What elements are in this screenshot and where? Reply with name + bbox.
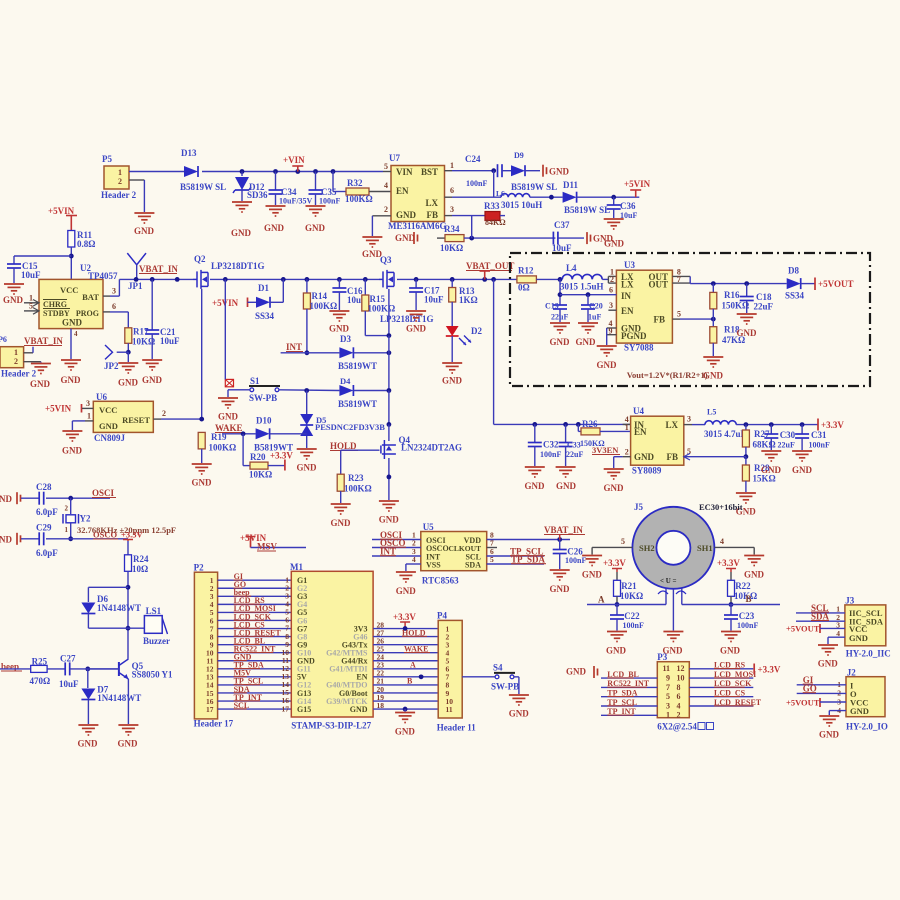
svg-text:LN2324DT2AG: LN2324DT2AG [401, 443, 462, 453]
svg-text:6: 6 [677, 692, 681, 701]
svg-text:100nF: 100nF [319, 197, 340, 206]
svg-text:22uF: 22uF [778, 441, 795, 450]
svg-text:GND: GND [329, 324, 350, 334]
svg-text:IN: IN [621, 291, 632, 301]
svg-text:D1: D1 [258, 283, 269, 293]
svg-text:D11: D11 [563, 180, 579, 190]
svg-text:B5819WT: B5819WT [338, 399, 377, 409]
svg-text:GND: GND [406, 324, 427, 334]
svg-text:GND: GND [849, 633, 868, 643]
svg-text:L4: L4 [566, 263, 577, 273]
svg-text:GND: GND [792, 465, 813, 475]
svg-text:4: 4 [677, 701, 681, 710]
svg-text:22uF: 22uF [551, 313, 568, 322]
svg-text:2: 2 [610, 275, 614, 284]
svg-text:6: 6 [609, 286, 613, 295]
svg-text:S1: S1 [250, 376, 260, 386]
svg-text:C20: C20 [589, 302, 603, 311]
svg-text:9: 9 [666, 674, 670, 683]
svg-text:C23: C23 [739, 611, 755, 621]
svg-text:LX: LX [425, 198, 438, 208]
svg-text:C30: C30 [780, 430, 796, 440]
svg-text:GND: GND [556, 481, 577, 491]
svg-text:R34: R34 [444, 224, 460, 234]
svg-text:100KΩ: 100KΩ [310, 301, 338, 311]
svg-text:6.0pF: 6.0pF [36, 507, 58, 517]
svg-text:R15: R15 [370, 294, 386, 304]
svg-text:GND: GND [597, 360, 618, 370]
svg-text:SS8050 Y1: SS8050 Y1 [132, 670, 173, 680]
svg-text:GND: GND [509, 709, 530, 719]
svg-text:GND: GND [0, 535, 13, 545]
svg-text:P3: P3 [657, 652, 667, 662]
svg-text:D2: D2 [471, 326, 482, 336]
svg-text:100KΩ: 100KΩ [344, 484, 372, 494]
svg-text:J5: J5 [634, 502, 644, 512]
svg-text:LS1: LS1 [146, 606, 162, 616]
svg-text:ME3116AM6G: ME3116AM6G [388, 221, 447, 231]
svg-text:VBAT_IN: VBAT_IN [544, 525, 583, 535]
svg-text:GND: GND [593, 234, 614, 244]
svg-text:beep: beep [1, 662, 19, 672]
svg-text:2: 2 [118, 177, 122, 186]
svg-text:GND: GND [297, 463, 318, 473]
svg-text:EC30+16bit: EC30+16bit [699, 502, 743, 512]
svg-text:< U =: < U = [660, 577, 677, 585]
svg-text:GND: GND [819, 730, 840, 740]
svg-text:100nF: 100nF [737, 621, 758, 630]
svg-text:U7: U7 [389, 153, 400, 163]
svg-text:R12: R12 [518, 266, 534, 276]
svg-text:3: 3 [687, 415, 691, 424]
svg-text:2: 2 [162, 409, 166, 418]
svg-text:GND: GND [331, 518, 352, 528]
svg-text:1: 1 [87, 412, 91, 421]
svg-text:4: 4 [836, 629, 840, 638]
svg-text:GND: GND [720, 646, 741, 656]
svg-text:10uF: 10uF [424, 295, 444, 305]
svg-text:VBAT_OUT: VBAT_OUT [466, 261, 514, 271]
svg-text:GND: GND [350, 705, 368, 714]
svg-text:D8: D8 [788, 266, 799, 276]
svg-text:GND: GND [264, 223, 285, 233]
svg-text:FB: FB [426, 210, 438, 220]
svg-text:SH1: SH1 [697, 543, 713, 553]
svg-text:1: 1 [118, 168, 122, 177]
svg-text:+VIN: +VIN [283, 155, 305, 165]
svg-text:18: 18 [377, 701, 385, 710]
svg-text:Header 2: Header 2 [101, 190, 137, 200]
svg-text:2: 2 [384, 205, 388, 214]
svg-text:VCC: VCC [99, 405, 117, 415]
svg-text:P2: P2 [194, 563, 204, 573]
svg-text:STAMP-S3-DIP-L27: STAMP-S3-DIP-L27 [291, 721, 371, 731]
svg-text:100nF: 100nF [623, 621, 644, 630]
svg-text:GND: GND [606, 646, 627, 656]
svg-text:+3.3V: +3.3V [121, 530, 143, 540]
svg-text:GND: GND [395, 727, 416, 737]
svg-text:U6: U6 [96, 392, 107, 402]
svg-text:D3: D3 [340, 334, 351, 344]
svg-text:GND: GND [62, 446, 83, 456]
svg-text:C33: C33 [567, 441, 581, 450]
svg-text:INT: INT [286, 342, 302, 352]
svg-text:LX: LX [665, 420, 678, 430]
svg-text:BST: BST [421, 167, 438, 177]
svg-text:3: 3 [86, 399, 90, 408]
svg-text:+3.3V: +3.3V [717, 558, 740, 568]
svg-text:PGND: PGND [621, 331, 647, 341]
svg-text:5: 5 [384, 162, 388, 171]
svg-text:OUT: OUT [648, 280, 668, 290]
svg-text:17: 17 [206, 705, 214, 714]
svg-text:17: 17 [282, 704, 290, 713]
svg-text:G15: G15 [297, 705, 311, 714]
svg-text:R16: R16 [724, 290, 740, 300]
svg-text:GND: GND [850, 706, 869, 716]
svg-text:5: 5 [677, 310, 681, 319]
svg-text:EN: EN [396, 186, 409, 196]
svg-text:BAT: BAT [82, 292, 99, 302]
svg-text:2: 2 [14, 357, 18, 366]
svg-text:GND: GND [3, 295, 24, 305]
svg-text:VBAT_IN: VBAT_IN [24, 336, 63, 346]
svg-text:100nF: 100nF [565, 556, 586, 565]
svg-text:100KΩ: 100KΩ [345, 194, 373, 204]
svg-text:U5: U5 [423, 522, 434, 532]
svg-text:B: B [407, 677, 413, 686]
svg-text:J2: J2 [847, 668, 857, 678]
svg-text:GND: GND [550, 584, 571, 594]
svg-text:R25: R25 [32, 657, 48, 667]
svg-text:SW-PB: SW-PB [249, 393, 277, 403]
svg-text:GND: GND [566, 667, 587, 677]
svg-text:C24: C24 [465, 154, 481, 164]
svg-text:3V3EN: 3V3EN [592, 445, 619, 455]
svg-text:J3: J3 [845, 596, 855, 606]
svg-text:OSCI: OSCI [92, 488, 115, 498]
svg-text:GND: GND [379, 515, 400, 525]
svg-text:GND: GND [525, 481, 546, 491]
svg-text:3: 3 [112, 287, 116, 296]
svg-text:10uF: 10uF [620, 211, 637, 220]
svg-text:OSCO: OSCO [93, 530, 117, 540]
svg-text:Header 11: Header 11 [437, 723, 477, 733]
svg-text:R19: R19 [211, 432, 227, 442]
svg-text:SY8089: SY8089 [632, 466, 662, 476]
svg-text:SS34: SS34 [255, 311, 275, 321]
svg-text:1: 1 [14, 348, 18, 357]
svg-text:C29: C29 [36, 523, 52, 533]
svg-text:22uF: 22uF [754, 302, 774, 312]
svg-text:10KΩ: 10KΩ [440, 243, 463, 253]
svg-text:D4: D4 [340, 376, 351, 386]
svg-text:4: 4 [720, 537, 724, 546]
svg-text:U3: U3 [624, 260, 635, 270]
svg-text:Q3: Q3 [380, 255, 392, 265]
svg-text:2: 2 [677, 711, 681, 720]
svg-text:R32: R32 [347, 178, 363, 188]
svg-text:LX: LX [621, 280, 634, 290]
svg-text:Header 17: Header 17 [194, 719, 234, 729]
svg-text:CHRG: CHRG [43, 300, 67, 309]
svg-text:GND: GND [396, 210, 417, 220]
svg-text:4: 4 [74, 330, 78, 338]
svg-text:4: 4 [412, 555, 416, 564]
svg-text:1KΩ: 1KΩ [459, 295, 478, 305]
svg-text:GND: GND [744, 570, 765, 580]
svg-text:5: 5 [29, 302, 33, 311]
svg-text:2: 2 [625, 448, 629, 457]
svg-text:0Ω: 0Ω [518, 283, 530, 293]
svg-text:VBAT_IN: VBAT_IN [139, 264, 178, 274]
svg-text:9: 9 [609, 327, 613, 336]
svg-text:1uF: 1uF [588, 313, 601, 322]
svg-text:R24: R24 [133, 554, 149, 564]
svg-text:B5819WT: B5819WT [338, 361, 377, 371]
svg-text:GND: GND [576, 337, 597, 347]
svg-text:470Ω: 470Ω [30, 676, 51, 686]
svg-text:10uF/35V: 10uF/35V [279, 197, 313, 206]
svg-text:M1: M1 [290, 562, 303, 572]
svg-text:6: 6 [112, 302, 116, 311]
svg-text:SS34: SS34 [785, 291, 805, 301]
svg-text:PESDNC2FD3V3B: PESDNC2FD3V3B [315, 422, 385, 432]
svg-text:C27: C27 [60, 654, 76, 664]
svg-text:84KΩ: 84KΩ [485, 218, 506, 227]
svg-text:S4: S4 [493, 663, 503, 673]
svg-text:HY-2.0_IO: HY-2.0_IO [846, 722, 888, 732]
svg-text:B5819W SL: B5819W SL [564, 205, 610, 215]
svg-text:2: 2 [65, 505, 69, 513]
svg-text:+5VOUT: +5VOUT [818, 279, 853, 289]
svg-text:100nF: 100nF [540, 450, 561, 459]
svg-text:10uF: 10uF [59, 679, 79, 689]
svg-text:C37: C37 [554, 220, 570, 230]
svg-text:R26: R26 [582, 419, 598, 429]
svg-text:GND: GND [134, 226, 155, 236]
svg-text:P6: P6 [0, 335, 7, 344]
svg-text:GND: GND [442, 376, 463, 386]
svg-text:LP3218DT1G: LP3218DT1G [380, 314, 434, 324]
svg-text:100KΩ: 100KΩ [368, 304, 396, 314]
svg-text:10uF: 10uF [552, 243, 572, 253]
svg-text:C31: C31 [811, 430, 827, 440]
svg-text:GND: GND [395, 233, 416, 243]
svg-text:+3.3V: +3.3V [270, 451, 293, 461]
svg-text:5: 5 [621, 537, 625, 546]
svg-text:GND: GND [761, 465, 782, 475]
svg-text:68KΩ: 68KΩ [753, 440, 776, 450]
svg-text:VCC: VCC [60, 285, 78, 295]
svg-text:C26: C26 [567, 547, 583, 557]
svg-text:P4: P4 [437, 611, 447, 621]
svg-text:JP1: JP1 [128, 281, 143, 291]
svg-text:10KΩ: 10KΩ [620, 591, 643, 601]
svg-text:1: 1 [625, 423, 629, 432]
svg-text:+3.3V: +3.3V [758, 665, 781, 675]
svg-text:LP3218DT1G: LP3218DT1G [211, 261, 265, 271]
svg-text:GND: GND [30, 379, 51, 389]
svg-text:B5819W SL: B5819W SL [511, 182, 557, 192]
svg-text:L5: L5 [707, 408, 716, 417]
svg-text:C36: C36 [620, 201, 636, 211]
svg-text:SDA: SDA [811, 611, 830, 621]
svg-text:B5819W SL: B5819W SL [180, 182, 226, 192]
svg-text:SY7088: SY7088 [624, 343, 654, 353]
svg-text:GND: GND [78, 739, 99, 749]
svg-text:D9: D9 [514, 151, 524, 160]
svg-text:VSS: VSS [426, 561, 441, 570]
svg-text:+5VIN: +5VIN [45, 404, 72, 414]
svg-text:GND: GND [604, 483, 625, 493]
svg-text:C32: C32 [543, 440, 559, 450]
svg-text:11: 11 [446, 705, 453, 714]
svg-text:R22: R22 [735, 581, 751, 591]
svg-text:GND: GND [61, 375, 82, 385]
svg-text:Buzzer: Buzzer [143, 636, 170, 646]
svg-text:A: A [598, 595, 605, 605]
svg-text:4: 4 [384, 181, 388, 190]
svg-text:+5VOUT: +5VOUT [786, 624, 820, 634]
svg-text:100KΩ: 100KΩ [209, 443, 237, 453]
svg-text:Header 2: Header 2 [1, 369, 37, 379]
svg-text:D13: D13 [181, 148, 197, 158]
svg-text:GND: GND [192, 478, 213, 488]
svg-text:1: 1 [450, 161, 454, 170]
svg-text:GND: GND [231, 228, 252, 238]
svg-text:3: 3 [450, 205, 454, 214]
svg-text:150KΩ: 150KΩ [722, 301, 750, 311]
svg-text:C19: C19 [545, 302, 559, 311]
svg-text:GND: GND [737, 328, 758, 338]
svg-text:SW-PB: SW-PB [491, 682, 519, 692]
svg-text:GND: GND [142, 375, 163, 385]
svg-text:100nF: 100nF [466, 179, 487, 188]
svg-text:GND: GND [818, 659, 839, 669]
svg-text:R20: R20 [250, 452, 266, 462]
svg-text:GND: GND [634, 452, 655, 462]
svg-text:SH2: SH2 [639, 543, 655, 553]
svg-text:C22: C22 [624, 611, 640, 621]
svg-text:RESET: RESET [122, 415, 150, 425]
svg-text:R33: R33 [484, 201, 500, 211]
svg-text:JP2: JP2 [104, 361, 119, 371]
svg-text:Y2: Y2 [80, 514, 91, 524]
svg-text:R23: R23 [348, 473, 364, 483]
svg-text:1N4148WT: 1N4148WT [97, 603, 141, 613]
svg-text:D10: D10 [256, 416, 272, 426]
svg-text:SD36: SD36 [247, 190, 268, 200]
svg-text:GND: GND [118, 739, 139, 749]
svg-text:C34: C34 [281, 187, 297, 197]
svg-text:Q2: Q2 [194, 254, 206, 264]
svg-text:R17: R17 [133, 327, 149, 337]
svg-text:GND: GND [218, 412, 239, 422]
svg-text:A: A [410, 661, 416, 670]
svg-text:7: 7 [666, 683, 670, 692]
svg-text:VIN: VIN [396, 167, 413, 177]
svg-text:8: 8 [677, 683, 681, 692]
svg-text:GND: GND [118, 378, 139, 388]
svg-text:3015 1.5uH: 3015 1.5uH [560, 282, 604, 292]
svg-text:GND: GND [550, 337, 571, 347]
svg-text:GND: GND [549, 167, 570, 177]
svg-text:B: B [746, 594, 752, 604]
svg-text:EN: EN [621, 306, 634, 316]
svg-text:3: 3 [609, 301, 613, 310]
svg-text:+3.3V: +3.3V [393, 612, 416, 622]
svg-text:+5VIN: +5VIN [48, 206, 75, 216]
svg-text:11: 11 [662, 664, 670, 673]
svg-text:FB: FB [666, 452, 678, 462]
svg-text:1: 1 [666, 711, 670, 720]
svg-text:R14: R14 [312, 291, 328, 301]
svg-text:SDA: SDA [465, 561, 481, 570]
svg-text:+3.3V: +3.3V [821, 420, 844, 430]
svg-text:+5VOUT: +5VOUT [786, 698, 820, 708]
svg-text:EN: EN [634, 427, 647, 437]
svg-text:12: 12 [677, 664, 685, 673]
svg-text:Vout=1.2V*(R1/R2+1): Vout=1.2V*(R1/R2+1) [627, 370, 708, 380]
svg-text:6X2@2.54: 6X2@2.54 [657, 722, 697, 732]
svg-text:GND: GND [0, 494, 13, 504]
svg-text:CN809J: CN809J [94, 433, 125, 443]
svg-text:TP_SDA: TP_SDA [511, 555, 546, 565]
svg-text:MSV: MSV [257, 542, 278, 552]
svg-text:6.0pF: 6.0pF [36, 548, 58, 558]
svg-text:1N4148WT: 1N4148WT [97, 693, 141, 703]
svg-text:10uF: 10uF [21, 270, 41, 280]
svg-text:10: 10 [677, 674, 685, 683]
svg-text:7: 7 [677, 275, 681, 284]
svg-text:5: 5 [666, 692, 670, 701]
svg-text:R21: R21 [621, 581, 637, 591]
svg-text:+3.3V: +3.3V [603, 558, 626, 568]
svg-text:GND: GND [62, 318, 83, 328]
svg-text:1: 1 [65, 526, 69, 534]
svg-text:INT: INT [380, 547, 396, 557]
svg-text:GO: GO [803, 684, 817, 694]
svg-text:U4: U4 [633, 406, 644, 416]
svg-text:RTC8563: RTC8563 [422, 576, 459, 586]
svg-text:3015 4.7uH: 3015 4.7uH [704, 429, 748, 439]
svg-text:6: 6 [450, 186, 454, 195]
svg-text:10Ω: 10Ω [132, 564, 148, 574]
svg-text:0.8Ω: 0.8Ω [77, 239, 95, 249]
svg-text:P5: P5 [102, 154, 112, 164]
svg-text:GND: GND [582, 570, 603, 580]
svg-text:C28: C28 [36, 482, 52, 492]
svg-text:15KΩ: 15KΩ [753, 474, 776, 484]
svg-text:10KΩ: 10KΩ [249, 470, 272, 480]
svg-text:GND: GND [99, 421, 118, 431]
svg-text:TP4057: TP4057 [88, 271, 118, 281]
svg-text:L6: L6 [496, 189, 505, 198]
svg-text:+5VIN: +5VIN [624, 179, 651, 189]
svg-text:100nF: 100nF [809, 441, 830, 450]
svg-text:GND: GND [396, 586, 417, 596]
svg-text:3015 10uH: 3015 10uH [501, 200, 542, 210]
svg-text:C18: C18 [756, 292, 772, 302]
svg-text:GND: GND [305, 223, 326, 233]
svg-text:3: 3 [666, 701, 670, 710]
svg-text:HY-2.0_IIC: HY-2.0_IIC [846, 649, 891, 659]
svg-text:FB: FB [653, 315, 665, 325]
svg-text:22uF: 22uF [566, 450, 583, 459]
svg-text:10uF: 10uF [160, 336, 180, 346]
